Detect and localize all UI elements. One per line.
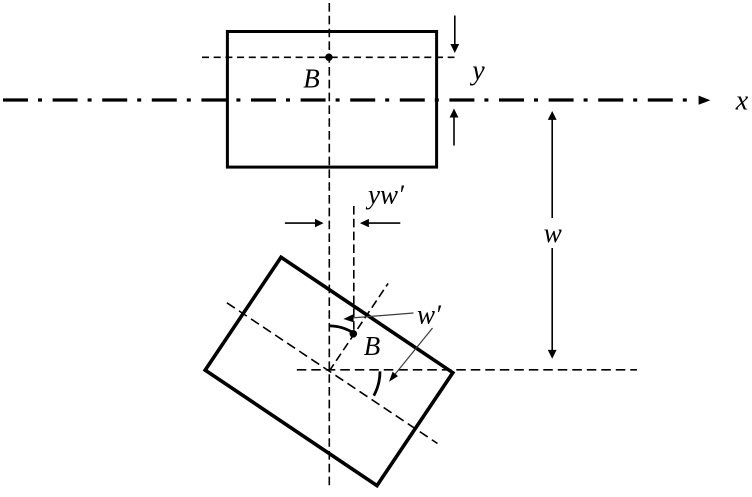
svg-text:B: B [364,331,381,361]
dashed line through B (top) [202,56,455,58]
x-axis arrowhead [699,96,711,105]
rotated long-axis dashed line [227,303,438,444]
rotated short-axis dashed line [329,283,388,371]
svg-text:w′: w′ [417,300,442,330]
x-axis centerline (dash-dot) [3,98,694,101]
leader line to w' (upper arc) [353,313,414,318]
horizontal dashed line through rotated rect centre [297,369,637,371]
yw' right-pointing arrow [285,222,316,224]
leader line to w' (lower arc) [394,328,433,376]
w double arrow [551,120,553,219]
svg-text:w: w [544,218,562,248]
short vertical dashed line through displaced B [353,206,355,331]
point B (top) [325,54,332,61]
up arrow (y dimension, below axis) [453,117,455,146]
upper rotation arc at vertical axis [329,326,354,334]
point B (rotated) [350,330,358,338]
down arrow (y dimension, above axis) [454,16,456,45]
svg-text:B: B [303,64,320,94]
svg-text:yw′: yw′ [365,180,405,210]
rectangle body (top, unrotated) [227,32,436,168]
svg-text:x: x [735,86,749,117]
rectangle body (bottom, rotated) [205,257,453,485]
vertical dashed centerline (long) [328,3,330,486]
lower rotation arc at horizontal axis [374,371,380,395]
svg-text:y: y [469,56,485,87]
yw' left-pointing arrow [368,222,400,224]
